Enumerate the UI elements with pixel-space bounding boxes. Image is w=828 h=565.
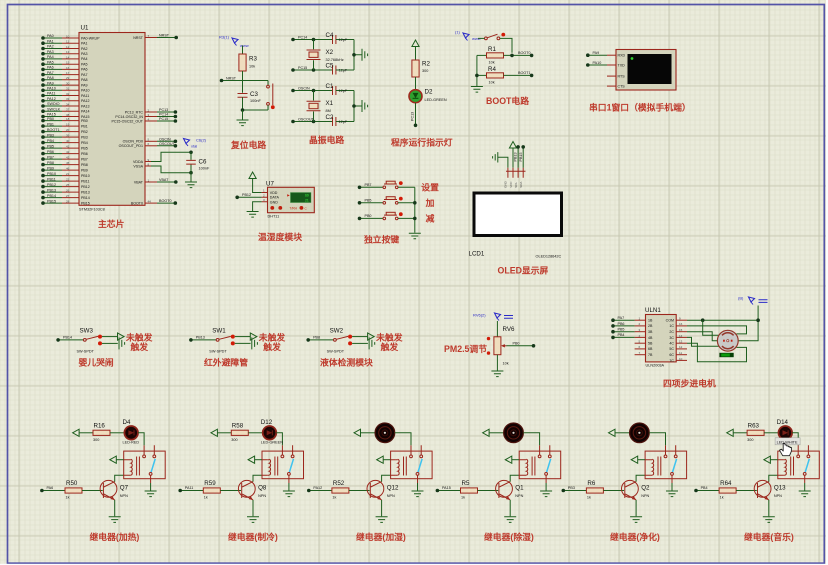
- wire / pin PA1: [41, 39, 87, 45]
- svg-text:4B: 4B: [648, 336, 653, 340]
- switch (BOOT select): [478, 33, 512, 53]
- svg-text:PB1: PB1: [81, 124, 88, 128]
- wire / pin PB7: [41, 155, 88, 161]
- svg-text:PB4: PB4: [618, 333, 625, 337]
- svg-text:10k: 10k: [249, 65, 255, 69]
- svg-text:5B: 5B: [648, 342, 653, 346]
- svg-text:PA9: PA9: [47, 81, 54, 85]
- svg-text:1k: 1k: [720, 496, 724, 500]
- svg-text:2C: 2C: [669, 330, 674, 334]
- svg-text:PB12: PB12: [242, 193, 251, 197]
- wire GND to ground: [253, 202, 262, 211]
- svg-text:SW-SPDT: SW-SPDT: [77, 350, 95, 354]
- wire / pin PA6: [41, 66, 87, 72]
- svg-text:NRST: NRST: [159, 34, 170, 38]
- svg-text:15: 15: [66, 61, 70, 65]
- wire SCL: [514, 145, 520, 168]
- svg-text:X2: X2: [326, 49, 334, 56]
- svg-text:1k: 1k: [332, 496, 336, 500]
- pin VSSA: [133, 162, 191, 172]
- svg-text:未触发: 未触发: [258, 331, 286, 342]
- relay coil+contact+transistor wiring: [562, 445, 687, 522]
- svg-text:OLED128642C: OLED128642C: [536, 255, 562, 259]
- svg-text:32: 32: [66, 92, 70, 96]
- LED branch with series resistor: [73, 426, 145, 445]
- svg-text:NPN: NPN: [641, 494, 649, 498]
- svg-text:45: 45: [66, 161, 70, 165]
- svg-text:RV6(2): RV6(2): [473, 313, 486, 318]
- svg-text:PB12: PB12: [47, 183, 56, 187]
- svg-text:PA10: PA10: [47, 87, 56, 91]
- svg-text:加: 加: [425, 197, 435, 208]
- svg-text:R16: R16: [94, 423, 106, 430]
- svg-text:C6(2): C6(2): [196, 138, 207, 143]
- svg-text:BOOT电路: BOOT电路: [486, 95, 529, 106]
- svg-text:四项步进电机: 四项步进电机: [663, 378, 716, 389]
- svg-text:7B: 7B: [648, 353, 653, 357]
- svg-text:OSCOUT: OSCOUT: [159, 142, 176, 146]
- relay coil+contact+transistor wiring: [694, 445, 819, 522]
- svg-text:继电器(加湿): 继电器(加湿): [356, 531, 406, 542]
- svg-text:OSCIN: OSCIN: [298, 86, 310, 90]
- svg-text:PC13_RTC: PC13_RTC: [125, 110, 144, 114]
- svg-text:7C: 7C: [669, 359, 674, 363]
- relay coil+contact+transistor wiring: [307, 445, 432, 522]
- motor branch: [483, 423, 540, 445]
- temperature humidity module U7 DHT11: [262, 181, 315, 219]
- svg-text:PB2: PB2: [81, 130, 88, 134]
- svg-text:16: 16: [679, 322, 683, 326]
- svg-text:VDDA: VDDA: [133, 160, 144, 164]
- relay RL2 circuit (继电器(制冷)): [178, 419, 303, 522]
- svg-text:PA6: PA6: [81, 68, 88, 72]
- svg-text:SDA: SDA: [519, 182, 523, 188]
- svg-text:温湿度模块: 温湿度模块: [258, 231, 302, 242]
- svg-text:PB13: PB13: [196, 336, 205, 340]
- wire / pin PB14: [41, 194, 90, 200]
- svg-text:18: 18: [66, 117, 70, 121]
- svg-text:PB12: PB12: [81, 185, 90, 189]
- LED D2 LED-GREEN: [409, 89, 447, 103]
- svg-text:红外避障管: 红外避障管: [204, 357, 248, 368]
- svg-text:PA12: PA12: [313, 486, 322, 490]
- wire PB6 to ULN1: [611, 322, 634, 328]
- wire / pin PB10: [41, 172, 90, 178]
- svg-text:U7: U7: [266, 181, 274, 188]
- svg-text:25: 25: [66, 183, 70, 187]
- relay coil+contact+transistor wiring: [436, 445, 561, 522]
- svg-text:触发: 触发: [131, 341, 149, 352]
- svg-text:PA3: PA3: [81, 52, 88, 56]
- svg-text:PB7: PB7: [365, 183, 372, 187]
- svg-text:6B: 6B: [648, 347, 653, 351]
- svg-text:NPN: NPN: [120, 494, 128, 498]
- svg-text:Q12: Q12: [387, 485, 399, 492]
- svg-text:VBAT: VBAT: [134, 180, 144, 184]
- svg-text:LCD1: LCD1: [469, 251, 485, 258]
- svg-text:6C: 6C: [669, 353, 674, 357]
- svg-text:SW-SPDT: SW-SPDT: [327, 350, 345, 354]
- svg-text:R50: R50: [66, 480, 78, 487]
- svg-text:PB0: PB0: [513, 341, 520, 345]
- svg-text:PB14: PB14: [81, 196, 90, 200]
- svg-text:C3: C3: [250, 91, 258, 98]
- wire OSCOUT row: [291, 117, 332, 123]
- wire / pin PA12: [41, 97, 89, 103]
- svg-text:PA2: PA2: [47, 45, 54, 49]
- svg-text:PC14: PC14: [298, 35, 307, 39]
- svg-text:D12: D12: [261, 419, 273, 426]
- svg-text:PB3: PB3: [47, 133, 54, 137]
- ground (keys): [409, 233, 421, 239]
- push button key PB7: [358, 181, 415, 189]
- svg-text:R63: R63: [748, 423, 760, 430]
- svg-text:PA11: PA11: [81, 94, 89, 98]
- wire / pin VBAT: [134, 178, 178, 184]
- svg-text:PA0-WKUP: PA0-WKUP: [81, 36, 100, 40]
- svg-text:1k: 1k: [66, 496, 70, 500]
- svg-text:PB5: PB5: [365, 198, 372, 202]
- svg-text:12: 12: [66, 45, 70, 49]
- svg-text:OSCOUT_PD1: OSCOUT_PD1: [119, 144, 143, 148]
- svg-text:R3(1): R3(1): [219, 35, 230, 40]
- svg-text:VSSA: VSSA: [133, 164, 143, 168]
- svg-text:OSCIN_PD0: OSCIN_PD0: [123, 140, 143, 144]
- svg-text:SWDIO: SWDIO: [47, 102, 60, 106]
- svg-text:39: 39: [66, 134, 70, 138]
- svg-text:PB13: PB13: [81, 190, 90, 194]
- wire 4C to motor: [687, 343, 747, 362]
- svg-text:继电器(净化): 继电器(净化): [610, 531, 660, 542]
- svg-text:www: www: [240, 43, 249, 48]
- svg-text:PA12: PA12: [47, 97, 56, 101]
- svg-text:ULN2003A: ULN2003A: [646, 364, 665, 368]
- svg-text:串口1窗口（模拟手机端）: 串口1窗口（模拟手机端）: [589, 101, 691, 112]
- LED branch with series resistor: [211, 426, 283, 445]
- wire 3C to motor: [687, 337, 719, 346]
- ground (C6): [185, 182, 197, 188]
- svg-text:PB8: PB8: [47, 161, 54, 165]
- svg-text:5C: 5C: [669, 347, 674, 351]
- svg-text:R3: R3: [249, 56, 257, 63]
- capacitor C1 12pF: [326, 83, 355, 95]
- ground (rotated): [362, 100, 368, 112]
- wire / pin PA7: [41, 71, 87, 77]
- svg-text:12pF: 12pF: [339, 38, 348, 42]
- svg-text:12: 12: [679, 345, 683, 349]
- wire / pin PA10: [41, 87, 89, 93]
- wire / pin PB8: [41, 161, 88, 167]
- svg-text:PC15-OSC32_OUT: PC15-OSC32_OUT: [111, 119, 143, 123]
- svg-text:11: 11: [66, 40, 69, 44]
- svg-text:复位电路: 复位电路: [230, 139, 266, 150]
- wire / pin PB2: [41, 128, 88, 134]
- LED branch with series resistor: [727, 426, 799, 445]
- svg-text:PA4: PA4: [81, 57, 88, 61]
- svg-text:PC13: PC13: [411, 112, 415, 121]
- svg-text:13: 13: [679, 340, 683, 344]
- svg-text:C6: C6: [199, 159, 207, 166]
- wire / pin PC14-OSC32_IN: [115, 113, 177, 119]
- svg-text:10k: 10k: [489, 61, 495, 65]
- wire / pin OSCOUT_PD1: [119, 142, 178, 148]
- svg-text:(B): (B): [738, 296, 744, 301]
- capacitor C6 100nF: [186, 151, 210, 182]
- svg-text:PA7: PA7: [47, 71, 54, 75]
- svg-text:C5: C5: [326, 63, 334, 70]
- svg-text:PB11: PB11: [47, 177, 56, 181]
- svg-text:PC14: PC14: [159, 113, 168, 117]
- wire / pin PA11: [41, 92, 89, 98]
- svg-text:32.768kHz: 32.768kHz: [326, 58, 344, 62]
- wire / pin BOOT0: [131, 199, 177, 205]
- wire PA7 to ULN1: [611, 316, 634, 322]
- svg-text:PB4: PB4: [81, 141, 88, 145]
- wire / pin PB12: [41, 183, 90, 189]
- crystal X2 32.768kHz: [307, 40, 344, 71]
- svg-text:PC15: PC15: [298, 66, 307, 70]
- wire OSCIN row: [291, 86, 332, 92]
- ground (OLED GND, rotated left): [493, 152, 498, 162]
- svg-text:独立按键: 独立按键: [364, 234, 399, 245]
- svg-text:NPN: NPN: [387, 494, 395, 498]
- power probe R3(1): [219, 35, 249, 49]
- svg-text:1k: 1k: [204, 496, 208, 500]
- svg-text:1k: 1k: [461, 496, 465, 500]
- svg-text:R58: R58: [232, 423, 244, 430]
- svg-text:SWCLK: SWCLK: [47, 107, 61, 111]
- svg-text:PB1: PB1: [47, 122, 54, 126]
- svg-text:VDD: VDD: [270, 191, 278, 195]
- svg-text:DATA: DATA: [270, 196, 280, 200]
- svg-text:1C: 1C: [669, 324, 674, 328]
- resistor R1 10k: [477, 46, 533, 65]
- svg-text:300: 300: [93, 438, 99, 442]
- svg-text:PB0: PB0: [47, 117, 54, 121]
- ground (reset): [237, 110, 249, 126]
- svg-text:PB7: PB7: [47, 155, 54, 159]
- resistor R4 10k: [477, 66, 533, 85]
- svg-text:减: 减: [426, 212, 435, 223]
- svg-text:PC14-OSC32_IN: PC14-OSC32_IN: [115, 115, 143, 119]
- svg-text:100nF: 100nF: [250, 99, 261, 103]
- svg-text:PA8: PA8: [47, 76, 54, 80]
- relay RL6 circuit (继电器(音乐)): [694, 419, 819, 522]
- wire / pin PA4: [41, 55, 87, 61]
- svg-text:33: 33: [66, 97, 70, 101]
- svg-text:17: 17: [66, 71, 70, 75]
- svg-text:PA3: PA3: [47, 50, 54, 54]
- resistor R2 300: [412, 47, 431, 90]
- capacitor C5 12pF: [326, 63, 355, 75]
- svg-text:1k: 1k: [587, 496, 591, 500]
- wire / pin PA13: [41, 102, 89, 108]
- svg-text:46: 46: [66, 167, 70, 171]
- svg-text:D2: D2: [425, 89, 433, 96]
- svg-text:15: 15: [679, 328, 683, 332]
- svg-text:BOOT1: BOOT1: [518, 71, 531, 75]
- wire COM net: [687, 306, 760, 341]
- wire / pin PA15: [41, 113, 89, 119]
- relay RL4 circuit (继电器(除湿)): [436, 423, 561, 522]
- svg-text:PA0: PA0: [47, 34, 54, 38]
- svg-text:SW1: SW1: [212, 328, 226, 335]
- wire / pin PA0: [41, 34, 100, 40]
- ground (BOOT): [471, 87, 483, 93]
- wire / pin PB3: [41, 133, 88, 139]
- wire / pin PC13_RTC: [125, 108, 178, 114]
- svg-text:PB7: PB7: [81, 157, 88, 161]
- wire GND pin: [498, 157, 508, 168]
- wire PB5 to ULN1: [611, 328, 634, 334]
- svg-text:PA5: PA5: [81, 63, 88, 67]
- svg-text:X1: X1: [326, 100, 334, 107]
- svg-text:(1): (1): [455, 30, 461, 35]
- wire / pin PB5: [41, 144, 88, 150]
- svg-text:PB9: PB9: [81, 168, 88, 172]
- svg-text:PB8: PB8: [313, 336, 320, 340]
- svg-text:设置: 设置: [421, 181, 439, 192]
- pin RTS stub: [607, 75, 616, 77]
- wire to PC13: [411, 103, 418, 127]
- svg-text:300: 300: [231, 438, 237, 442]
- svg-text:CTS: CTS: [618, 85, 626, 89]
- power arrow (U7 VDD): [249, 172, 262, 193]
- svg-text:BOOT0: BOOT0: [518, 51, 531, 55]
- svg-text:PA10: PA10: [593, 61, 602, 65]
- OLED pin stubs: [504, 168, 526, 188]
- wire / pin PA2: [41, 45, 87, 51]
- svg-text:触发: 触发: [381, 341, 399, 352]
- svg-text:21: 21: [305, 198, 309, 202]
- svg-text:OSCIN: OSCIN: [159, 137, 171, 141]
- ground (RV6): [491, 371, 503, 377]
- svg-text:PB13: PB13: [47, 188, 56, 192]
- svg-text:PB10: PB10: [81, 174, 90, 178]
- svg-text:37: 37: [66, 108, 70, 112]
- svg-text:PB0: PB0: [81, 119, 88, 123]
- svg-text:14: 14: [679, 334, 683, 338]
- svg-text:RTS: RTS: [618, 75, 626, 79]
- svg-text:RV6: RV6: [503, 326, 515, 333]
- driver ULN1 ULN2003A: [635, 307, 687, 368]
- svg-text:12pF: 12pF: [339, 69, 348, 73]
- svg-text:PA6: PA6: [47, 486, 54, 490]
- push button key PB0: [358, 212, 415, 220]
- svg-text:3B: 3B: [648, 330, 653, 334]
- svg-text:SW-SPDT: SW-SPDT: [209, 350, 227, 354]
- svg-text:PB6: PB6: [81, 152, 88, 156]
- wire / pin PA9: [41, 81, 87, 87]
- svg-text:PB8: PB8: [81, 163, 88, 167]
- svg-text:PA5: PA5: [47, 60, 54, 64]
- svg-text:PB10: PB10: [47, 172, 56, 176]
- svg-text:NRST: NRST: [133, 36, 144, 40]
- switch SW1 SW-SPDT: [189, 328, 285, 354]
- svg-text:COM: COM: [666, 319, 674, 323]
- wire PC15 row: [291, 66, 332, 72]
- svg-text:LED-WHITE: LED-WHITE: [777, 440, 798, 444]
- wire right vertical: [352, 40, 362, 71]
- svg-text:PA1: PA1: [47, 39, 54, 43]
- svg-text:VCC: VCC: [509, 181, 513, 188]
- wire / pin PB1: [41, 122, 88, 128]
- svg-text:主芯片: 主芯片: [98, 218, 125, 229]
- svg-text:D14: D14: [777, 419, 789, 426]
- svg-text:PB3: PB3: [81, 135, 88, 139]
- svg-text:14: 14: [66, 55, 70, 59]
- svg-text:44: 44: [148, 200, 152, 204]
- svg-text:U1: U1: [81, 25, 89, 32]
- capacitor C3 100nF: [238, 81, 262, 111]
- svg-text:TXD: TXD: [618, 63, 626, 67]
- svg-text:69: 69: [305, 194, 309, 198]
- svg-text:D4: D4: [123, 419, 131, 426]
- svg-text:10: 10: [679, 357, 683, 361]
- svg-text:PA7: PA7: [81, 73, 88, 77]
- ground (rotated): [362, 49, 368, 61]
- wire left vertical: [475, 55, 479, 86]
- svg-text:PB6: PB6: [618, 322, 625, 326]
- svg-text:1B: 1B: [648, 319, 653, 323]
- svg-text:Q13: Q13: [774, 485, 786, 492]
- wire key bus: [413, 187, 417, 232]
- svg-text:4C: 4C: [669, 342, 674, 346]
- wire / pin PB15: [41, 199, 90, 205]
- svg-text:OLED显示屏: OLED显示屏: [498, 266, 549, 276]
- svg-text:PM2.5调节: PM2.5调节: [444, 343, 487, 354]
- stepper motor: [717, 330, 738, 357]
- svg-text:PB5: PB5: [81, 146, 88, 150]
- svg-text:PA11: PA11: [185, 486, 193, 490]
- svg-text:PC13: PC13: [159, 108, 168, 112]
- svg-text:婴儿哭闹: 婴儿哭闹: [79, 357, 114, 368]
- svg-text:R1: R1: [488, 46, 496, 53]
- svg-text:BOOT1: BOOT1: [47, 128, 60, 132]
- svg-text:PB15: PB15: [519, 152, 523, 161]
- svg-text:PA11: PA11: [47, 92, 55, 96]
- wire PB12 to DATA: [235, 193, 261, 199]
- svg-text:PA2: PA2: [81, 47, 88, 51]
- svg-text:PB4: PB4: [701, 486, 708, 490]
- svg-text:继电器(除湿): 继电器(除湿): [484, 531, 534, 542]
- wire COM left branch: [703, 320, 720, 335]
- wire / pin PB0: [41, 117, 88, 123]
- relay coil+contact+transistor wiring: [40, 445, 165, 522]
- relay RL1 circuit (继电器(加热)): [40, 419, 165, 522]
- svg-text:xtal: xtal: [191, 144, 197, 149]
- svg-text:NPN: NPN: [258, 494, 266, 498]
- wire / pin PB6: [41, 150, 88, 156]
- svg-text:PB15: PB15: [81, 201, 90, 205]
- power probe RV6(2): [473, 313, 513, 321]
- svg-text:10: 10: [66, 34, 70, 38]
- svg-text:BOOT0: BOOT0: [131, 201, 143, 205]
- svg-text:13: 13: [66, 50, 70, 54]
- svg-text:NPN: NPN: [774, 494, 782, 498]
- svg-text:PA12: PA12: [81, 99, 90, 103]
- motor branch: [354, 423, 411, 445]
- svg-text:PB6: PB6: [47, 150, 54, 154]
- svg-text:28: 28: [66, 200, 70, 204]
- wire / pin PA14: [41, 107, 89, 113]
- power probe stepper supply: [738, 296, 768, 305]
- wire / pin PA5: [41, 60, 87, 66]
- svg-text:27: 27: [66, 194, 70, 198]
- svg-text:SW2: SW2: [330, 328, 344, 335]
- wire PA9 to RXD: [586, 51, 616, 57]
- svg-text:PA10: PA10: [81, 89, 90, 93]
